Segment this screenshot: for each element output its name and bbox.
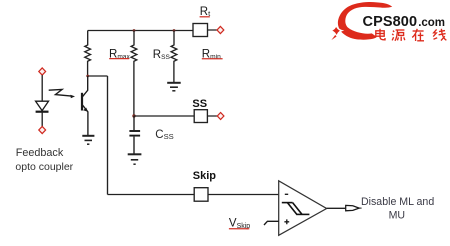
collector wire: [83, 76, 88, 97]
red underline R_min: [202, 58, 223, 60]
ground under transistor emitter: [82, 136, 94, 144]
junction collector jog: [86, 75, 89, 78]
port box SS: [194, 110, 207, 123]
logo star: [330, 25, 341, 38]
minus input mark: [285, 193, 288, 195]
svg-text:Feedback: Feedback: [16, 147, 64, 159]
wire skip horizontal to box: [108, 194, 195, 196]
logo chinese char xian: [433, 29, 446, 41]
svg-text:RSS: RSS: [153, 49, 171, 61]
port box Skip: [194, 188, 208, 202]
logo star ray: [329, 34, 337, 42]
wire Rt box to terminal: [208, 29, 218, 31]
ground under C_SS: [128, 154, 142, 164]
red underline R_max: [109, 58, 129, 60]
op-amp U1 comparator: [279, 181, 327, 236]
hysteresis symbol: [282, 203, 310, 215]
photodiode D1: [36, 101, 49, 112]
ground under R_min: [167, 83, 181, 91]
terminal diamond SS: [217, 113, 224, 120]
wire Skip box to comparator: [208, 194, 279, 196]
svg-text:opto coupler: opto coupler: [15, 161, 73, 173]
resistor R_max: [85, 31, 91, 77]
logo chinese char zai: [412, 29, 424, 41]
logo chinese char yuan: [392, 30, 405, 41]
wire cathode lead: [41, 112, 43, 127]
output arrow tip stub: [359, 207, 361, 209]
svg-text:Skip: Skip: [193, 170, 217, 182]
opto light arrow: [49, 89, 75, 98]
wire top rail: [88, 30, 193, 32]
port box Rt: [193, 24, 208, 37]
logo chinese char dian: [376, 29, 385, 40]
wire anode lead: [41, 75, 43, 101]
resistor R_SS: [131, 31, 137, 117]
node SS junction: [132, 114, 135, 117]
svg-text:CSS: CSS: [155, 129, 173, 141]
wire SS horizontal: [134, 115, 194, 117]
base bar: [81, 93, 83, 111]
plus input mark: [284, 219, 289, 224]
emitter wire with arrow: [83, 105, 88, 135]
wire collector jog: [88, 75, 108, 77]
resistor R_min: [171, 31, 177, 83]
red underline Rt: [200, 16, 210, 18]
output port arrow: [346, 205, 360, 210]
terminal diamond cathode: [39, 126, 46, 133]
wire comparator output: [327, 207, 346, 209]
logo C swoosh: [338, 2, 392, 40]
wire skip vertical: [107, 76, 109, 195]
svg-text:Disable ML and: Disable ML and: [361, 196, 434, 208]
capacitor C_SS: [129, 116, 140, 154]
node junction R_min top: [173, 29, 176, 32]
red underline V_Skip: [229, 228, 249, 230]
svg-text:MU: MU: [389, 210, 405, 222]
transistor Q1 (opto output): [82, 76, 88, 136]
terminal diamond anode: [39, 68, 46, 75]
terminal diamond Rt: [217, 26, 224, 33]
wire plus input stub: [264, 221, 279, 225]
svg-text:SS: SS: [192, 98, 207, 110]
wire SS box to terminal: [207, 115, 217, 117]
svg-text:VSkip: VSkip: [229, 218, 250, 230]
svg-text:.com: .com: [418, 17, 445, 29]
svg-text:CPS800: CPS800: [363, 14, 418, 30]
node junction R_SS top: [133, 29, 136, 32]
